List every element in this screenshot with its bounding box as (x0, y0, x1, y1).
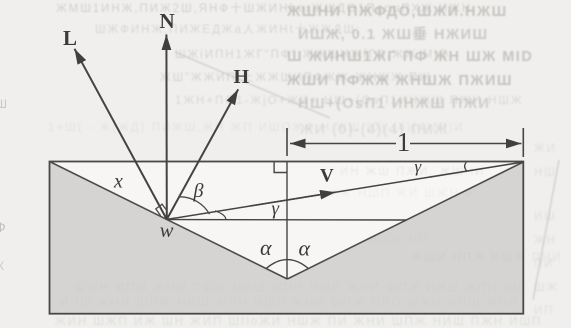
svg-text:НШ+(ОsП1 ИНЖШ ПЖИ: НШ+(ОsП1 ИНЖШ ПЖИ (298, 96, 490, 112)
svg-text:ЖИ (0)-(4)(4) ПИЖ: ЖИ (0)-(4)(4) ПИЖ (299, 122, 449, 138)
left margin marks (0, 97, 7, 273)
beta angle arc (between H and V) (180, 197, 210, 214)
svg-text:x: x (113, 171, 123, 193)
svg-text:ЖИН ШЖП ИЖ ШН ЖИП ШfloЖИ НШЖ: ЖИН ШЖП ИЖ ШН ЖИП ШfloЖИ НШЖ ПИ ЖНИ ШПЖ … (55, 316, 542, 328)
svg-text:α: α (299, 236, 311, 261)
svg-text:ИШЖ НП: ИШЖ НП (368, 234, 429, 246)
vector L (75, 49, 167, 220)
svg-text:w: w (160, 220, 174, 242)
svg-text:1: 1 (397, 127, 411, 157)
svg-text:H: H (234, 66, 250, 88)
svg-text:ИПШ ЖНИ ШПЖ НИШ ЖПН ИШП ЖНИ Ш: ИПШ ЖНИ ШПЖ НИШ ЖПН ИШП ЖНИ ШПЖ НИП ШЖН … (60, 297, 519, 309)
horizontal reference line from w to right facet (167, 219, 407, 222)
svg-text:НШ: НШ (534, 167, 557, 179)
faint bleed diagonal (figure show-through) (175, 52, 330, 118)
dimension tick left (above box) (286, 128, 288, 156)
right facet line (groove vertex to top-right corner) (287, 162, 523, 279)
faint bleed diagonal right margin (533, 160, 559, 300)
gamma angle arc at top-right corner (465, 162, 468, 171)
bleed-through text rows (back of page) (48, 1, 524, 134)
svg-text:β: β (193, 180, 204, 202)
svg-text:ЖШИ НПЖ ИШЖ ПНИ: ЖШИ НПЖ ИШЖ ПНИ (412, 252, 562, 264)
svg-text:ШЖН ИПШ ЖНИ ПШЖ НИШ ЖПН ИШП Ж: ШЖН ИПШ ЖНИ ПШЖ НИШ ЖПН ИШП ЖНИ ШПЖ НИШ … (75, 282, 526, 294)
faint bleed rows over gray region (60, 234, 562, 309)
vertical center line through groove vertex (286, 162, 288, 280)
outer box border (50, 162, 524, 314)
darker bleed overlay top-right quadrant (286, 4, 533, 138)
svg-text:ИШЖ, 0.1 ЖШ垂 НЖИШ: ИШЖ, 0.1 ЖШ垂 НЖИШ (298, 25, 489, 43)
bleed rows inside/right of figure (55, 143, 559, 328)
svg-text:γ: γ (272, 199, 280, 220)
left facet line (top-left corner to groove vertex) (50, 162, 288, 280)
alpha angle arc across vertex (266, 260, 309, 269)
svg-text:К: К (0, 259, 4, 273)
right-angle square marker at w (L perpendicular to facet) (156, 204, 167, 215)
gray material region below the V-groove surfaces (50, 162, 524, 314)
perpendicular marker at top of center line (274, 162, 287, 172)
outer box fill (groove cross-section) (50, 162, 524, 314)
faint bleed rows inside box (330, 166, 485, 200)
svg-text:N: N (160, 9, 175, 33)
svg-text:ШЖ: ШЖ (534, 282, 559, 294)
vector V arrowhead on view line (250, 192, 336, 206)
svg-text:Ш: Ш (0, 97, 7, 111)
svg-text:L: L (63, 26, 77, 50)
vector H (half vector) (167, 89, 238, 219)
svg-text:ИШ: ИШ (534, 211, 557, 223)
svg-text:ЖШИ ПФЖЖ ЖНШЖ ПЖИШ: ЖШИ ПФЖЖ ЖНШЖ ПЖИШ (286, 73, 513, 89)
svg-text:α: α (260, 235, 272, 260)
dimension tick right (above box) (522, 128, 524, 157)
svg-text:Ш ЖИНШ1ЖГ ПФ ЖН ШЖ MID: Ш ЖИНШ1ЖГ ПФ ЖН ШЖ MID (287, 49, 533, 65)
svg-text:ЖШНИ ПЖФДО,ШЖИ.НЖШ: ЖШНИ ПЖФДО,ШЖИ.НЖШ (286, 4, 508, 20)
gamma angle arc at w (between V line and horizontal) (215, 211, 226, 220)
vector N (surface normal) (165, 35, 167, 220)
svg-text:ЖИ: ЖИ (534, 143, 557, 155)
view line w to top-right corner (167, 162, 524, 219)
svg-text:V: V (320, 166, 334, 187)
dimension line with outward arrows, label gap (290, 143, 396, 145)
svg-text:Ф: Ф (0, 219, 6, 235)
